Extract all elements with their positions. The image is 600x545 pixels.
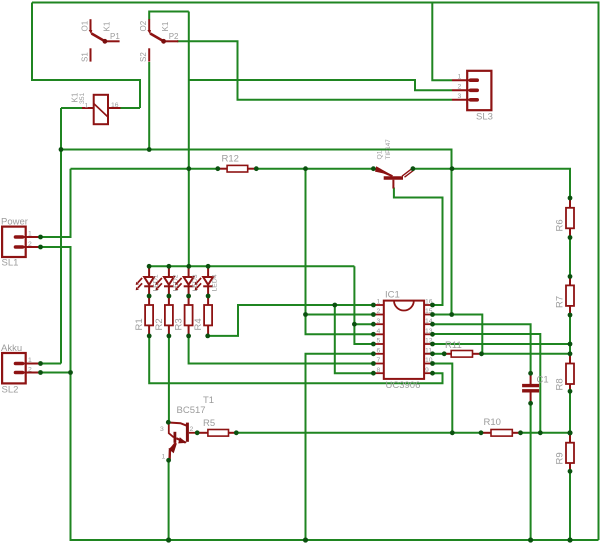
wire: R12 row right to Q1 emitter	[256, 168, 373, 170]
capacitor C1	[522, 373, 549, 403]
svg-text:Q1: Q1	[377, 150, 384, 159]
wire: SL2 pin1 stub	[41, 363, 62, 365]
resistor R6	[555, 198, 575, 238]
svg-text:R1: R1	[134, 318, 145, 330]
svg-text:BC517: BC517	[177, 405, 206, 416]
wire: P2 to SL3 pin3	[177, 41, 452, 100]
svg-text:1: 1	[458, 74, 462, 81]
svg-text:P2: P2	[169, 32, 179, 41]
wire: R7 to R8	[569, 315, 571, 356]
wire: R10 right to divider	[521, 432, 571, 434]
relay contact K1 set2 O2/P2/S2	[139, 19, 179, 62]
wire: O2 top jog	[149, 12, 189, 20]
wire: relay coil pin16 to corner	[121, 107, 141, 109]
wire: R12 row left	[71, 168, 218, 170]
junction and pin dots	[38, 147, 573, 543]
wire: IC pin3 stub	[354, 323, 373, 325]
svg-text:O1: O1	[81, 20, 90, 31]
wire: left border down to relay coil pin 16	[32, 3, 140, 109]
wire: R11 right to divider	[482, 353, 571, 355]
wire: IC pin13 row down to R10 row	[433, 334, 541, 433]
wire: IC pin7 row to R3 bottom	[189, 336, 374, 364]
svg-text:Akku: Akku	[1, 343, 22, 354]
LED4	[195, 266, 219, 296]
svg-text:R3: R3	[174, 318, 185, 330]
wire: LED anode rail	[149, 265, 354, 267]
svg-text:6: 6	[377, 347, 381, 354]
resistor R1	[134, 296, 153, 336]
wire: net y149 row to Q1 collector column and IC pin15	[61, 150, 452, 315]
wire: IC pin11 to R11	[433, 353, 445, 355]
svg-text:R10: R10	[484, 417, 501, 428]
svg-text:3: 3	[160, 426, 164, 433]
resistor R7	[555, 277, 575, 316]
svg-text:R4: R4	[193, 318, 204, 330]
svg-text:2: 2	[28, 241, 32, 248]
LED3	[175, 266, 199, 296]
svg-text:8: 8	[377, 367, 381, 374]
resistor R8	[555, 356, 575, 391]
resistor R4	[193, 296, 212, 336]
svg-text:1: 1	[162, 454, 166, 461]
wire: vertical x305.5 R12 row to IC pin4	[306, 169, 374, 335]
wire: IC pin12 row to divider and right border	[433, 343, 571, 345]
svg-text:IC1: IC1	[385, 290, 400, 301]
svg-text:4: 4	[377, 328, 381, 335]
connector SL3	[452, 71, 493, 123]
svg-text:2: 2	[377, 308, 381, 315]
wire: R2 bottom to T1 collector	[168, 336, 170, 422]
wire: R9 bottom to bottom border	[569, 471, 571, 540]
wire: Q1 collector to R6 chain	[413, 169, 570, 198]
svg-text:2: 2	[28, 366, 32, 373]
svg-text:O2: O2	[139, 20, 148, 31]
resistor R10	[481, 417, 521, 436]
svg-text:C1: C1	[537, 375, 549, 386]
wire: C1 bottom to bottom border	[530, 403, 532, 540]
wire: vertical x188.8 from O2 to LED rail	[188, 12, 190, 267]
wire: SL2 pin2 stub	[41, 372, 71, 374]
svg-text:R2: R2	[154, 318, 165, 330]
wire: IC pin2 stub	[306, 314, 374, 316]
svg-text:R8: R8	[555, 378, 566, 390]
svg-text:2: 2	[190, 426, 194, 433]
connector SL2 Akku	[1, 343, 41, 396]
svg-text:SL2: SL2	[2, 385, 19, 396]
wire: bottom border from SL1 pin2 branch	[41, 247, 599, 540]
resistor R5	[197, 418, 236, 436]
svg-text:R9: R9	[555, 452, 566, 464]
resistor R12	[218, 154, 256, 173]
svg-text:1: 1	[28, 231, 32, 238]
transistor Q1 TIP147	[375, 139, 414, 189]
wire: y80 row to SL3 pin2	[189, 80, 452, 90]
svg-text:R7: R7	[555, 296, 566, 308]
resistor R9	[555, 433, 575, 472]
transistor T1 BC517	[160, 395, 214, 461]
resistor R2	[154, 296, 173, 336]
LED2	[156, 266, 180, 296]
relay coil K1	[71, 92, 121, 124]
wire: R8 bottom to R10 row	[569, 391, 571, 433]
wire: IC pin16 up to Q1 base	[394, 188, 443, 306]
wire: IC pin14 row down to C1 top	[433, 324, 531, 373]
wire: IC pin6 down to R10 row	[306, 354, 374, 540]
svg-text:3: 3	[377, 318, 381, 325]
wire: vertical x61 coil pin1 to SL2 pin1	[60, 108, 62, 364]
svg-text:P1: P1	[110, 32, 120, 41]
wire: SL1 pin1 up to R12 row	[41, 169, 71, 237]
svg-text:1: 1	[28, 357, 32, 364]
svg-text:TIP147: TIP147	[385, 139, 392, 160]
svg-text:R11: R11	[445, 340, 462, 351]
wire: relay coil pin1 left	[61, 107, 82, 109]
wire: top border to SL3 pin1	[432, 3, 452, 81]
svg-text:3: 3	[458, 93, 462, 100]
svg-text:5: 5	[377, 338, 381, 345]
wire: IC pin8 up to pin1 row	[335, 305, 374, 373]
svg-text:Power: Power	[1, 217, 28, 228]
wire: IC pin10 down to R10 row	[433, 364, 453, 433]
svg-text:LED4: LED4	[212, 274, 219, 291]
wire: S2 down to y149 row	[148, 62, 150, 150]
svg-text:R5: R5	[203, 418, 215, 429]
wire: T1 emitter to bottom border	[168, 460, 170, 540]
svg-text:UC3906: UC3906	[386, 380, 421, 391]
svg-text:1: 1	[85, 103, 89, 110]
svg-text:9: 9	[425, 367, 429, 374]
wire: R6 to R7	[569, 238, 571, 277]
svg-text:S2: S2	[139, 52, 148, 62]
IC U1 UC3906	[373, 290, 432, 392]
wire: IC pin15 row down to R11 right	[433, 315, 483, 354]
wire: R5 to R10 row	[236, 432, 481, 434]
resistor R3	[174, 296, 193, 336]
svg-text:1: 1	[377, 299, 381, 306]
wire: IC pin1 row to R4 bottom	[208, 305, 374, 336]
resistor R11	[444, 340, 481, 357]
svg-text:S1: S1	[81, 52, 90, 62]
connector SL1 Power	[1, 217, 41, 269]
relay contact K1 set1 O1/P1/S1	[81, 19, 121, 62]
wire: IC pin5 up to LED rail	[354, 266, 373, 344]
svg-text:SL1: SL1	[2, 258, 19, 269]
svg-text:K1: K1	[161, 21, 170, 31]
svg-text:R6: R6	[555, 219, 566, 231]
wire: IC pin9 jog to R1 bottom row	[149, 336, 442, 383]
svg-text:SL3: SL3	[476, 112, 493, 123]
svg-text:7: 7	[377, 357, 381, 364]
svg-text:R12: R12	[222, 154, 239, 165]
LED1	[136, 266, 160, 296]
svg-text:K1: K1	[103, 21, 112, 31]
svg-text:2: 2	[458, 84, 462, 91]
svg-text:16: 16	[111, 102, 119, 109]
